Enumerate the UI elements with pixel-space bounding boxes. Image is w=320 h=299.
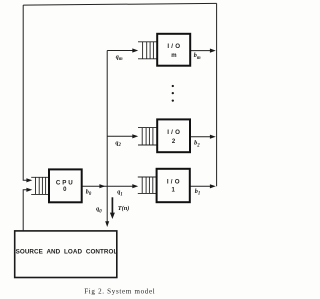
wire source to CPU queue <box>23 190 28 231</box>
block CPU 0 <box>49 169 82 202</box>
arrow b0 into mid bus <box>99 184 105 188</box>
wire top feedback <box>23 3 216 5</box>
arrow b2 into right bus <box>210 135 216 139</box>
queue m <box>138 42 158 59</box>
block I/O m <box>157 34 190 66</box>
wire qm <box>107 50 133 52</box>
queue CPU <box>31 177 49 194</box>
queue 1 <box>138 177 157 193</box>
svg-text:SOURCE AND LOAD CONTROL: SOURCE AND LOAD CONTROL <box>16 248 118 255</box>
wire mid distribution bus q0 <box>106 51 108 223</box>
queue 2 <box>138 128 158 145</box>
wire right collector bus <box>216 3 218 186</box>
wire left feedback bus <box>23 5 28 180</box>
arrow into CPU queue top <box>26 178 32 182</box>
wire bm <box>190 50 211 52</box>
arrow into CPU queue bottom <box>26 188 32 192</box>
arrow q1 into queue 1 <box>132 184 138 188</box>
arrow T(n) <box>110 197 115 219</box>
wire b2 <box>190 136 211 138</box>
wire b0 q1 from CPU to queue 1 <box>82 185 134 187</box>
wire q2 <box>107 135 133 137</box>
svg-text:Fig 2. System model: Fig 2. System model <box>84 287 155 295</box>
arrow q2 into queue 2 <box>132 134 138 138</box>
arrow bm into right bus <box>210 49 216 53</box>
svg-text:T(n): T(n) <box>118 205 130 212</box>
svg-text:I/O: I/O <box>167 178 182 185</box>
svg-text:CPU: CPU <box>56 179 75 186</box>
svg-text:I/O: I/O <box>167 129 182 136</box>
arrow q0 into source block <box>105 221 109 227</box>
block SOURCE AND LOAD CONTROL <box>15 231 118 278</box>
ellipsis dots between I/O m and I/O 2 <box>172 85 174 102</box>
block I/O 2 <box>157 119 190 152</box>
arrow b1 into right bus <box>210 184 216 188</box>
block I/O 1 <box>157 169 190 202</box>
wire b1 <box>190 185 211 187</box>
svg-text:I/O: I/O <box>167 43 182 50</box>
svg-text:m: m <box>171 53 176 59</box>
arrow qm into queue m <box>132 48 138 52</box>
